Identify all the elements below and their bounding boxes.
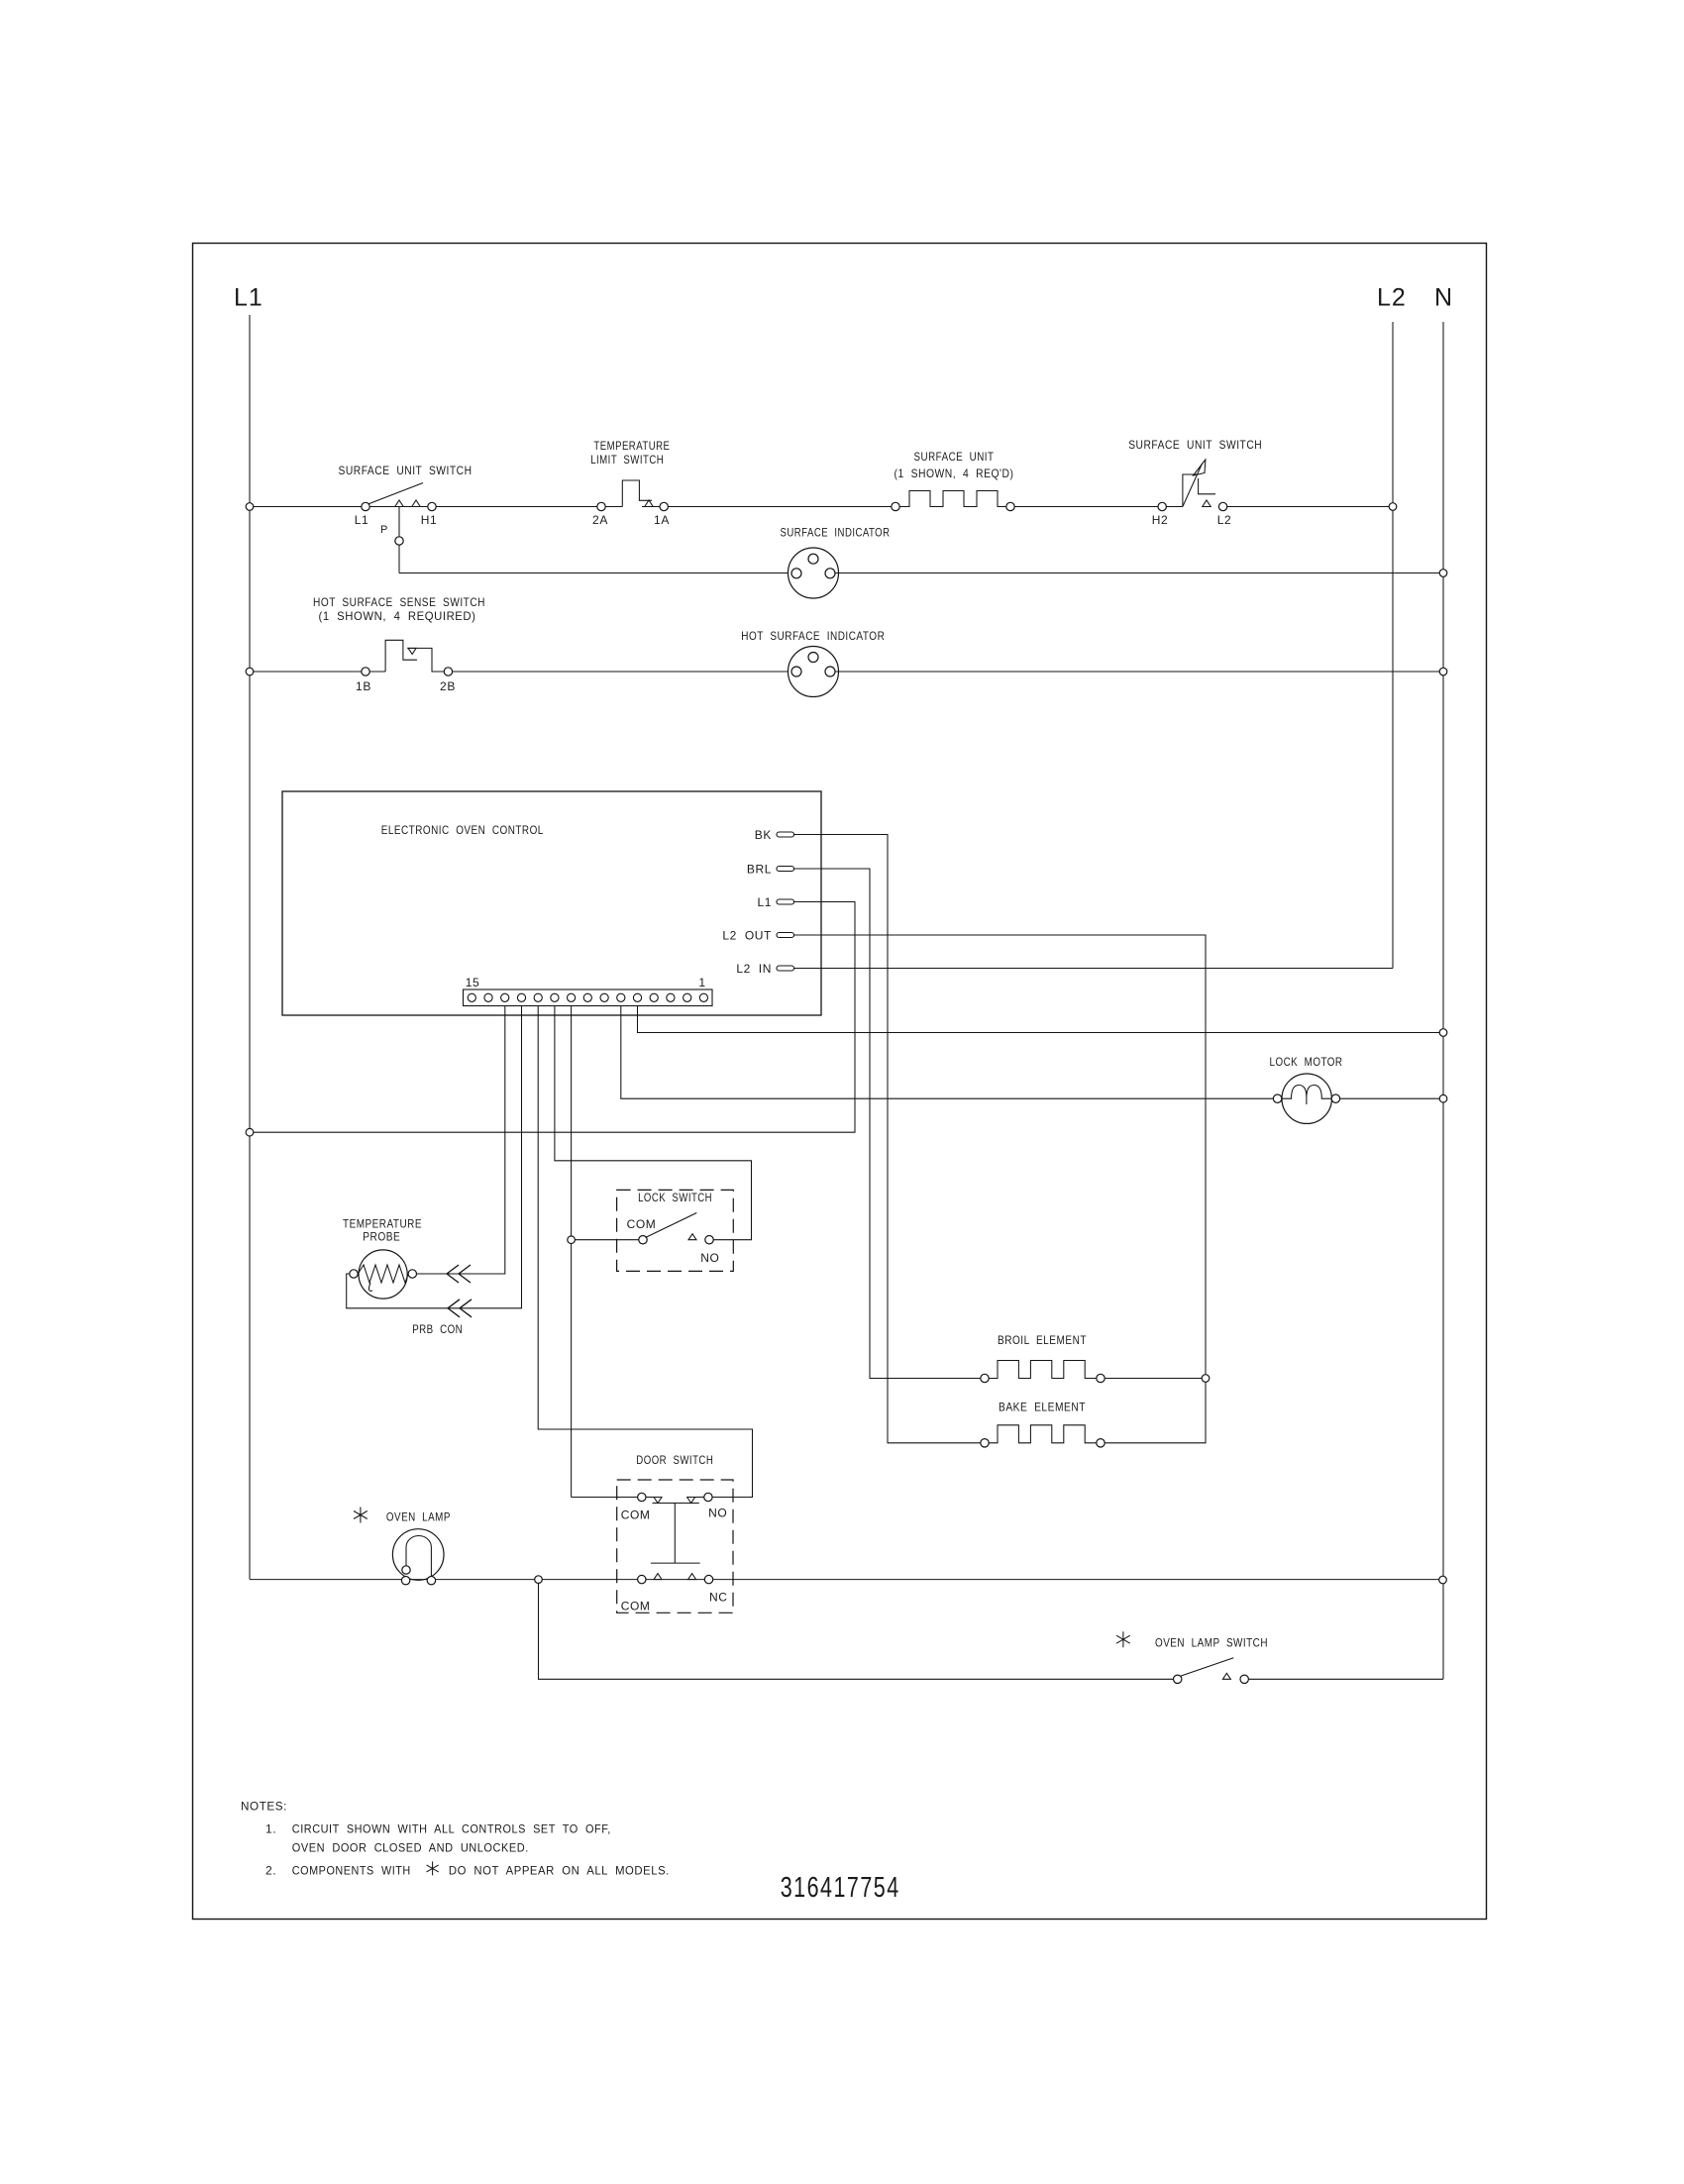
- wire row1 left: [254, 506, 362, 508]
- junction L1 bus / row1: [246, 503, 254, 511]
- svg-text:1.: 1.: [265, 1821, 276, 1835]
- junction broil / L2 OUT wire: [1202, 1375, 1210, 1383]
- probe connector chevrons: [447, 1265, 459, 1283]
- surface unit heating element: [892, 502, 899, 510]
- svg-text:(1 SHOWN, 4 REQUIRED): (1 SHOWN, 4 REQUIRED): [319, 609, 476, 623]
- svg-text:2A: 2A: [592, 513, 608, 527]
- wire lamp switch to N: [1249, 1678, 1444, 1680]
- wire L2 OUT: [794, 935, 1207, 1443]
- svg-text:BRL: BRL: [747, 863, 772, 877]
- svg-text:L1: L1: [234, 284, 263, 312]
- EOC strip pin: [699, 993, 707, 1001]
- wire L1 out: [250, 902, 855, 1133]
- wire pin12 to probe return: [347, 1006, 522, 1308]
- svg-text:OVEN LAMP: OVEN LAMP: [386, 1509, 451, 1523]
- door switch upper pole: [572, 1497, 638, 1499]
- surface unit switch SW1: [362, 502, 369, 510]
- svg-text:SURFACE UNIT: SURFACE UNIT: [914, 450, 995, 464]
- svg-text:L2 IN: L2 IN: [736, 962, 772, 976]
- wire N bus: [1442, 322, 1444, 1679]
- wire lock motor to N: [1340, 1097, 1440, 1099]
- wire pin10 to lock switch NO: [555, 1006, 752, 1240]
- wire row1 to SW2: [1014, 506, 1158, 508]
- svg-text:DO NOT APPEAR ON ALL MODELS.: DO NOT APPEAR ON ALL MODELS.: [449, 1864, 670, 1878]
- wire L2 bus: [1392, 322, 1394, 969]
- junction row3 / N bus: [1439, 668, 1447, 676]
- svg-text:COM: COM: [621, 1599, 651, 1612]
- EOC strip pin: [684, 993, 691, 1001]
- svg-text:LIMIT SWITCH: LIMIT SWITCH: [590, 453, 664, 467]
- svg-text:H1: H1: [421, 513, 438, 527]
- junction pin9 / lock COM rail: [568, 1236, 576, 1244]
- svg-text:P: P: [380, 524, 388, 536]
- oven lamp switch asterisk: [1116, 1631, 1130, 1647]
- svg-text:L2: L2: [1377, 284, 1407, 312]
- EOC strip pin: [600, 993, 608, 1001]
- temperature probe: [359, 1250, 407, 1299]
- svg-text:HOT SURFACE INDICATOR: HOT SURFACE INDICATOR: [741, 629, 885, 643]
- wire row2 to N: [835, 572, 1439, 574]
- wire row3 to N: [835, 671, 1439, 673]
- svg-text:1B: 1B: [356, 679, 371, 693]
- EOC strip pin: [484, 993, 492, 1001]
- wire row3 left: [254, 671, 362, 673]
- wire pin11 to door switch NO: [538, 1006, 752, 1498]
- svg-text:L2: L2: [1217, 513, 1232, 527]
- svg-text:15: 15: [466, 976, 480, 989]
- lock switch: [575, 1239, 638, 1241]
- note 2 asterisk: [427, 1861, 439, 1875]
- svg-text:COM: COM: [621, 1508, 651, 1522]
- lock motor: [1282, 1074, 1331, 1123]
- svg-text:BK: BK: [755, 828, 772, 842]
- surface unit switch SW2: [1158, 502, 1166, 510]
- junction lamp rail / N bus: [1439, 1576, 1447, 1584]
- EOC strip pin: [583, 993, 591, 1001]
- junction pin5 rail / N bus: [1439, 1029, 1447, 1037]
- junction row2 / N bus: [1439, 570, 1447, 577]
- svg-text:1A: 1A: [654, 513, 670, 527]
- broil element: [981, 1374, 989, 1382]
- wire row2 from P: [399, 572, 789, 574]
- hot surface indicator: [789, 647, 839, 697]
- oven lamp switch: [1174, 1675, 1182, 1683]
- svg-text:N: N: [1434, 284, 1453, 312]
- EOC terminal strip: [464, 989, 713, 1006]
- door switch box: [617, 1480, 733, 1612]
- svg-text:NOTES:: NOTES:: [241, 1800, 287, 1814]
- terminal P of SW1: [398, 507, 400, 537]
- EOC strip pin: [633, 993, 641, 1001]
- wire L2 IN: [794, 968, 1394, 970]
- svg-text:L1: L1: [757, 895, 772, 909]
- svg-text:OVEN LAMP SWITCH: OVEN LAMP SWITCH: [1155, 1635, 1268, 1649]
- EOC strip pin: [650, 993, 658, 1001]
- junction lamp rail / lamp switch drop: [535, 1576, 543, 1584]
- svg-text:LOCK MOTOR: LOCK MOTOR: [1270, 1055, 1343, 1069]
- wire pin5 to N: [638, 1006, 1440, 1033]
- junction lock motor rail / N bus: [1439, 1094, 1447, 1102]
- wire L1 bus: [249, 315, 251, 1579]
- wire pin9 down: [571, 1006, 573, 1498]
- temperature limit switch: [597, 502, 605, 510]
- door switch plunger: [653, 1503, 699, 1505]
- svg-text:316417754: 316417754: [781, 1872, 900, 1904]
- svg-text:TEMPERATURE: TEMPERATURE: [343, 1216, 422, 1230]
- svg-text:BROIL ELEMENT: BROIL ELEMENT: [998, 1333, 1087, 1347]
- EOC strip pin: [551, 993, 559, 1001]
- oven lamp asterisk: [354, 1508, 368, 1523]
- electronic oven control box: [282, 791, 821, 1015]
- EOC strip pin: [534, 993, 542, 1001]
- svg-text:(1 SHOWN, 4 REQ'D): (1 SHOWN, 4 REQ'D): [895, 467, 1014, 480]
- svg-text:COM: COM: [627, 1217, 657, 1231]
- oven lamp: [392, 1529, 444, 1581]
- bake element: [981, 1439, 989, 1447]
- EOC strip pin: [617, 993, 625, 1001]
- svg-text:ELECTRONIC OVEN CONTROL: ELECTRONIC OVEN CONTROL: [381, 823, 544, 837]
- svg-text:TEMPERATURE: TEMPERATURE: [593, 439, 670, 453]
- svg-text:L2 OUT: L2 OUT: [722, 929, 772, 943]
- svg-text:SURFACE UNIT SWITCH: SURFACE UNIT SWITCH: [339, 464, 473, 477]
- svg-text:2B: 2B: [440, 679, 456, 693]
- EOC strip pin: [568, 993, 576, 1001]
- EOC strip pin: [501, 993, 509, 1001]
- wire pin6 to lock motor: [621, 1006, 1274, 1099]
- wire BK to bake element: [794, 835, 981, 1443]
- surface indicator: [789, 548, 839, 598]
- border frame: [193, 244, 1487, 1920]
- svg-text:PRB CON: PRB CON: [412, 1322, 463, 1336]
- wire row1 mid: [668, 506, 891, 508]
- svg-text:DOOR SWITCH: DOOR SWITCH: [636, 1453, 713, 1467]
- wire broil to L2OUT: [1105, 1378, 1206, 1380]
- wire BRL to broil element: [794, 869, 981, 1379]
- svg-text:HOT SURFACE SENSE SWITCH: HOT SURFACE SENSE SWITCH: [313, 595, 485, 609]
- svg-text:SURFACE INDICATOR: SURFACE INDICATOR: [781, 526, 891, 540]
- junction L1 bus / row3: [246, 668, 254, 676]
- svg-text:NO: NO: [700, 1251, 719, 1265]
- svg-text:2.: 2.: [265, 1864, 276, 1878]
- svg-text:NO: NO: [708, 1507, 727, 1520]
- EOC strip pin: [517, 993, 525, 1001]
- svg-text:1: 1: [698, 976, 705, 989]
- door switch lower pole: [638, 1575, 646, 1583]
- svg-text:COMPONENTS WITH: COMPONENTS WITH: [292, 1864, 411, 1878]
- EOC strip pin: [667, 993, 675, 1001]
- junction L1 bus / L1 wire: [246, 1128, 254, 1136]
- hot surface sense switch: [362, 668, 369, 676]
- svg-text:OVEN DOOR CLOSED AND UNLOCKED.: OVEN DOOR CLOSED AND UNLOCKED.: [292, 1841, 529, 1855]
- junction row1 / L2 bus: [1389, 503, 1397, 511]
- wire row1 to limit switch: [436, 506, 596, 508]
- svg-text:NC: NC: [709, 1590, 728, 1604]
- svg-text:PROBE: PROBE: [363, 1229, 400, 1243]
- lock switch box: [617, 1190, 734, 1271]
- svg-text:SURFACE UNIT SWITCH: SURFACE UNIT SWITCH: [1128, 438, 1262, 452]
- svg-text:BAKE ELEMENT: BAKE ELEMENT: [999, 1400, 1086, 1413]
- wire oven lamp rail: [250, 1579, 401, 1581]
- svg-text:CIRCUIT SHOWN WITH ALL CONTROL: CIRCUIT SHOWN WITH ALL CONTROLS SET TO O…: [292, 1821, 611, 1835]
- EOC strip pin: [468, 993, 475, 1001]
- svg-text:L1: L1: [355, 513, 369, 527]
- wire pin13 to probe: [417, 1006, 505, 1275]
- wire row3 mid: [453, 671, 791, 673]
- svg-text:LOCK SWITCH: LOCK SWITCH: [638, 1191, 712, 1204]
- svg-text:H2: H2: [1152, 513, 1169, 527]
- wire drop to lamp switch row: [539, 1583, 1174, 1679]
